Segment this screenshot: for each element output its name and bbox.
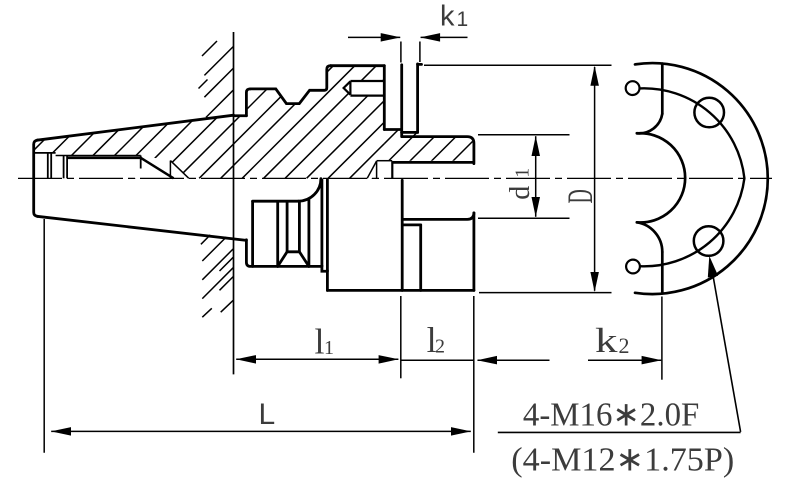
spindle wall hatching (top) bbox=[199, 41, 234, 117]
dimension L bbox=[44, 219, 471, 453]
cylinder top edge bbox=[331, 64, 385, 67]
drive slot fillet (top) bbox=[637, 114, 662, 134]
pilot face (lower) bbox=[472, 213, 475, 290]
thread note underline bbox=[498, 431, 741, 433]
dimension l2 bbox=[473, 296, 475, 453]
drive key step bbox=[403, 223, 421, 226]
side set-screw hole outline bbox=[344, 81, 385, 96]
thread note leader line bbox=[711, 262, 741, 432]
face groove left wall bbox=[383, 66, 386, 130]
thread end bbox=[140, 156, 142, 169]
dimension k2 bbox=[661, 297, 663, 380]
cavity mask: side set-screw hole bbox=[344, 81, 385, 96]
svg-text:1: 1 bbox=[457, 8, 469, 31]
end view outer circle (body OD) bbox=[635, 63, 768, 294]
pilot top edge bbox=[402, 137, 474, 164]
dimension d1 bbox=[478, 135, 570, 218]
svg-text:l: l bbox=[315, 322, 325, 362]
dimension l1 bbox=[236, 296, 401, 378]
spindle wall hatching (bottom) bbox=[201, 235, 233, 317]
body front face (k1 right) bbox=[416, 64, 419, 132]
svg-text:4-M16∗2.0F: 4-M16∗2.0F bbox=[523, 397, 699, 434]
tapped hole M16 (top) bbox=[694, 98, 724, 128]
thread minor line (thick) bbox=[67, 157, 141, 160]
face groove floor B bbox=[402, 131, 418, 134]
relief neck line and fillet arc bbox=[253, 200, 299, 203]
taper upper surface bbox=[37, 115, 234, 140]
taper shank small-end face bbox=[34, 140, 38, 216]
spindle gauge-plane wall face line bbox=[233, 32, 235, 374]
section hatching: holder body (taper, flange, cylinder) bbox=[34, 66, 385, 179]
edge lines of revolved corners bbox=[251, 201, 254, 266]
svg-text:k: k bbox=[440, 1, 455, 33]
svg-text:2: 2 bbox=[435, 336, 445, 358]
coolant bore thread chamfer bbox=[367, 161, 392, 179]
pilot bottom edge with corner bbox=[403, 213, 474, 219]
coolant bore thread end bbox=[391, 161, 393, 178]
face rim wall (k1 left) bbox=[400, 65, 403, 137]
secondary cone bbox=[169, 161, 171, 179]
pilot circle arc bbox=[637, 133, 685, 222]
svg-text:1: 1 bbox=[511, 168, 533, 178]
coolant bore root line (thick) bbox=[392, 161, 474, 164]
tapped hole M16 (bottom) bbox=[694, 226, 724, 256]
coolant hole (top) bbox=[626, 81, 640, 95]
flange front face (lower) and flange OD flat bbox=[246, 240, 327, 291]
svg-text:d: d bbox=[505, 186, 536, 200]
coolant hole (bottom) bbox=[626, 260, 640, 274]
flange top flat and V-groove bbox=[250, 66, 330, 104]
svg-text:k: k bbox=[595, 321, 618, 360]
centerline (axis) bbox=[18, 177, 772, 179]
section hatching: pilot wall strip under face grooves bbox=[384, 130, 472, 163]
bore cone to axis bbox=[141, 158, 174, 179]
V-groove silhouette (lower) bbox=[278, 252, 309, 267]
dimension D bbox=[424, 65, 612, 292]
drive slot side face (top) bbox=[661, 64, 664, 114]
cavity mask: center coolant bore at pilot bbox=[367, 161, 474, 179]
flange front face (upper) bbox=[246, 89, 250, 116]
body front face edge (lower) bbox=[401, 180, 404, 290]
thread major line bbox=[56, 155, 141, 157]
svg-text:2: 2 bbox=[619, 333, 630, 358]
cavity mask: pull-stud thread bore bbox=[34, 153, 189, 178]
face groove floor A bbox=[384, 128, 401, 131]
svg-text:D: D bbox=[561, 189, 601, 203]
svg-text:(4-M12∗1.75P): (4-M12∗1.75P) bbox=[511, 442, 734, 479]
bolt circle arc bbox=[640, 88, 745, 266]
dimension k1 bbox=[348, 37, 468, 62]
pull-stud recess internal lines bbox=[34, 153, 67, 178]
ledge at gauge plane (upper) bbox=[234, 114, 247, 117]
top corner nub bbox=[418, 63, 422, 66]
drive slot fillet (bottom) bbox=[637, 222, 662, 252]
svg-text:1: 1 bbox=[324, 337, 334, 359]
svg-text:L: L bbox=[259, 398, 276, 431]
cylinder bottom edge bbox=[327, 289, 474, 292]
drive slot side face (bottom) bbox=[661, 252, 664, 293]
taper lower surface bbox=[37, 216, 246, 240]
